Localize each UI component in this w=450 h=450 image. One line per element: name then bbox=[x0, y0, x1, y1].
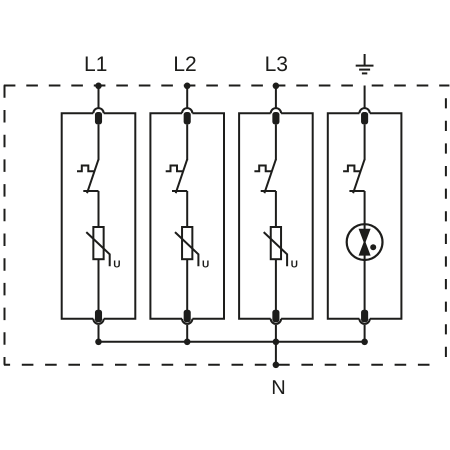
plug-in terminal (top, L2 path) bbox=[182, 108, 192, 113]
wire varistor to bottom terminal (L1 path) bbox=[98, 259, 100, 310]
node junction dot on N bus (L2 path) bbox=[184, 339, 191, 346]
varistor (L2 path) bbox=[175, 227, 198, 266]
protection module box (L3 path) bbox=[239, 113, 313, 318]
varistor (L3 path) bbox=[264, 227, 287, 266]
wire PE entry to module bbox=[364, 86, 366, 108]
wire module to N bus (L3 path) bbox=[275, 325, 277, 342]
wire module to N bus (L2 path) bbox=[186, 325, 188, 342]
ground (PE earth symbol) bbox=[356, 54, 374, 73]
varistor label U (L3 path) bbox=[291, 261, 297, 268]
wire L1 entry to module bbox=[98, 86, 100, 108]
plug-in terminal (bottom, L1 path) bbox=[93, 319, 103, 324]
thermal disconnector switch (PE path) bbox=[343, 159, 365, 193]
terminal label L3 bbox=[266, 56, 287, 71]
protection module box (L2 path) bbox=[150, 113, 224, 318]
wire terminal to disconnector (L1 path) bbox=[98, 124, 100, 160]
wire varistor to bottom terminal (L3 path) bbox=[275, 259, 277, 310]
plug-in terminal (bottom, L3 path) bbox=[271, 319, 281, 324]
plug-in terminal (top, L3 path) bbox=[271, 108, 281, 113]
wire L2 entry to module bbox=[186, 86, 188, 108]
thermal disconnector switch (L3 path) bbox=[254, 159, 276, 193]
node junction dot on N bus (L1 path) bbox=[95, 339, 102, 346]
wire N bus (horizontal) bbox=[99, 341, 365, 343]
wire terminal to disconnector (L2 path) bbox=[186, 124, 188, 160]
varistor (L1 path) bbox=[86, 227, 109, 266]
wire N bus to N terminal bbox=[275, 342, 277, 365]
varistor label U (L1 path) bbox=[114, 261, 120, 268]
plug-in terminal (top, L1 path) bbox=[93, 108, 103, 113]
wire disconnector to varistor (L3 path) bbox=[275, 191, 277, 227]
terminal label L1 bbox=[86, 57, 107, 71]
wire L3 entry to module bbox=[275, 86, 277, 108]
thermal disconnector switch (L2 path) bbox=[166, 159, 188, 193]
terminal label L2 bbox=[175, 56, 196, 71]
wire varistor to bottom terminal (L2 path) bbox=[186, 259, 188, 310]
device enclosure (dashed outline) bbox=[4, 85, 450, 365]
node junction dot on N bus (PE path) bbox=[361, 339, 368, 346]
protection module box (L1 path) bbox=[62, 113, 136, 318]
plug-in terminal (bottom, L2 path) bbox=[182, 319, 192, 324]
terminal label N bbox=[273, 380, 284, 394]
wire terminal to disconnector (L3 path) bbox=[275, 124, 277, 160]
wire disconnector to spark gap and to bottom terminal (PE path) bbox=[364, 191, 366, 310]
wire disconnector to varistor (L1 path) bbox=[98, 191, 100, 227]
plug-in terminal (bottom, PE path) bbox=[359, 319, 369, 324]
varistor label U (L2 path) bbox=[203, 261, 209, 268]
node N (junction dot on enclosure boundary) bbox=[273, 362, 280, 369]
node junction dot on N bus (L3 path) bbox=[273, 339, 280, 346]
node L3 (junction dot on enclosure boundary) bbox=[273, 83, 280, 90]
plug-in terminal (top, PE path) bbox=[359, 108, 369, 113]
node L1 (junction dot on enclosure boundary) bbox=[95, 83, 102, 90]
spark gap U4 (gas discharge gap, PE path) bbox=[347, 224, 383, 260]
node L2 (junction dot on enclosure boundary) bbox=[184, 83, 191, 90]
wire module to N bus (PE path) bbox=[364, 325, 366, 342]
thermal disconnector switch (L1 path) bbox=[77, 159, 99, 193]
protection module box (PE path) bbox=[328, 113, 402, 318]
wire module to N bus (L1 path) bbox=[98, 325, 100, 342]
wire terminal to disconnector (PE path) bbox=[364, 124, 366, 160]
wire disconnector to varistor (L2 path) bbox=[186, 191, 188, 227]
